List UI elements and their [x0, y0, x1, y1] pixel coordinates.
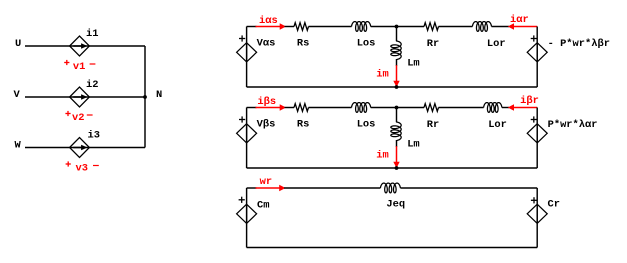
minus polarity mark of v3 [93, 165, 99, 167]
svg-text:im: im [376, 68, 388, 80]
wire V [25, 96, 145, 98]
svg-text:Rs: Rs [297, 119, 309, 131]
svg-text:iβr: iβr [520, 95, 539, 107]
plus polarity mark of v1 [64, 60, 69, 65]
minus polarity mark of v1 [90, 63, 96, 65]
svg-text:V: V [14, 89, 21, 101]
wire right rail (alpha axis) [536, 27, 538, 88]
junction node N [143, 95, 147, 99]
wire top-left segment (beta axis) [247, 107, 257, 109]
wire left rail (alpha axis) [246, 27, 248, 88]
wire U [25, 45, 145, 47]
inductor Lm (alpha axis) [391, 41, 401, 60]
inductor Los (alpha axis) [352, 22, 371, 32]
resistor Rr (beta axis) [424, 104, 439, 112]
junction node bottom (alpha axis) [395, 85, 399, 89]
svg-text:Rr: Rr [427, 119, 439, 131]
junction node top (alpha axis) [395, 25, 399, 29]
wire node-to-Lm (beta axis) [396, 108, 398, 123]
wire top segment source-to-Rs (alpha axis) [285, 26, 295, 28]
wire arrow-to-Jeq (mech) [284, 187, 380, 189]
current arrow ibr [508, 104, 538, 110]
current arrow im (alpha) [393, 65, 399, 87]
wire top segment source-to-Rs (beta axis) [285, 107, 295, 109]
svg-text:P*wr*λαr: P*wr*λαr [548, 119, 598, 131]
svg-text:Rs: Rs [297, 38, 309, 50]
speed arrow wr [256, 185, 286, 191]
svg-text:i1: i1 [86, 28, 98, 40]
svg-text:N: N [156, 89, 162, 101]
wire Jeq-to-right (mech) [400, 187, 537, 189]
svg-text:iαs: iαs [259, 15, 278, 27]
svg-text:Lm: Lm [407, 58, 419, 70]
svg-text:Rr: Rr [427, 38, 439, 50]
wire right rail (beta axis) [536, 108, 538, 169]
svg-text:Vαs: Vαs [257, 38, 276, 50]
svg-text:Los: Los [357, 119, 376, 131]
inductor Lor (alpha axis) [472, 22, 491, 32]
inductor Lm (beta axis) [391, 122, 401, 141]
wire top-left segment (mech) [247, 187, 257, 189]
torque source Cm [237, 204, 257, 223]
junction node bottom (beta axis) [395, 166, 399, 170]
plus mark of Vas [239, 35, 245, 41]
resistor Rs (alpha axis) [294, 23, 309, 31]
wire Lor-to-arrow (alpha axis) [492, 26, 510, 28]
voltage source Vas [237, 43, 257, 62]
minus polarity mark of v2 [87, 114, 93, 116]
svg-text:Los: Los [357, 38, 376, 50]
plus mark of Cr [531, 197, 537, 203]
svg-text:iβs: iβs [257, 96, 276, 108]
current arrow ibs [256, 104, 287, 110]
inductor Jeq [380, 183, 400, 193]
wire Los-to-node (beta axis) [371, 107, 424, 109]
svg-text:v2: v2 [72, 112, 84, 124]
current source i1 [70, 36, 90, 56]
svg-text:Lm: Lm [407, 139, 419, 151]
svg-text:- P*wr*λβr: - P*wr*λβr [548, 38, 610, 50]
wire Rr-to-Lor (beta axis) [439, 107, 484, 109]
wire Lm-to-arrow (alpha axis) [396, 59, 398, 66]
svg-text:i2: i2 [86, 79, 98, 91]
plus mark of emf source P*wr*λar [531, 116, 537, 122]
voltage source emf source P*wr*λar [527, 124, 547, 143]
plus polarity mark of v3 [66, 161, 71, 166]
wire top-left segment (alpha axis) [247, 26, 257, 28]
resistor Rs (beta axis) [294, 104, 309, 112]
wire Lor-to-arrow (beta axis) [502, 107, 509, 109]
voltage source Vbs [237, 124, 257, 143]
inductor Los (beta axis) [352, 103, 371, 113]
plus polarity mark of v2 [65, 111, 70, 116]
svg-text:Jeq: Jeq [386, 199, 405, 211]
svg-text:i3: i3 [88, 129, 100, 141]
wire Rs-to-Los (beta axis) [309, 107, 352, 109]
wire left rail (beta axis) [246, 108, 248, 169]
voltage source emf source -P*wr*λβr [527, 43, 547, 62]
svg-text:Vβs: Vβs [257, 119, 276, 131]
plus mark of Vbs [239, 116, 245, 122]
svg-text:Lor: Lor [487, 38, 506, 50]
junction node top (beta axis) [395, 106, 399, 110]
wire Los-to-node (alpha axis) [371, 26, 424, 28]
wire Rr-to-Lor (alpha axis) [439, 26, 473, 28]
wire bottom (mech) [247, 247, 538, 249]
current source i2 [70, 87, 90, 107]
svg-text:iαr: iαr [510, 14, 529, 26]
svg-text:Cr: Cr [548, 199, 560, 211]
resistor Rr (alpha axis) [424, 23, 439, 31]
wire left rail (mech) [246, 188, 248, 248]
svg-text:Cm: Cm [257, 200, 269, 212]
current arrow ias [256, 23, 287, 29]
svg-text:wr: wr [260, 176, 272, 188]
svg-text:v1: v1 [73, 61, 85, 73]
wire bottom (beta axis) [247, 167, 538, 169]
svg-text:v3: v3 [76, 163, 88, 175]
wire right rail (mech) [536, 188, 538, 248]
wire Rs-to-Los (alpha axis) [309, 26, 352, 28]
current arrow im (beta) [393, 146, 399, 168]
plus mark of emf source -P*wr*λβr [531, 35, 537, 41]
wire bus to node N [144, 46, 146, 148]
current source i3 [70, 138, 90, 158]
inductor Lor (beta axis) [484, 103, 502, 113]
torque source Cr [527, 204, 547, 223]
plus mark of Cm [239, 197, 245, 203]
svg-text:U: U [15, 38, 21, 50]
wire bottom (alpha axis) [247, 86, 538, 88]
svg-text:Lor: Lor [488, 119, 507, 131]
svg-text:W: W [15, 140, 22, 152]
wire W [25, 147, 145, 149]
current arrow iar [508, 23, 538, 29]
wire node-to-Lm (alpha axis) [396, 27, 398, 42]
wire Lm-to-arrow (beta axis) [396, 140, 398, 147]
svg-text:im: im [376, 149, 388, 161]
